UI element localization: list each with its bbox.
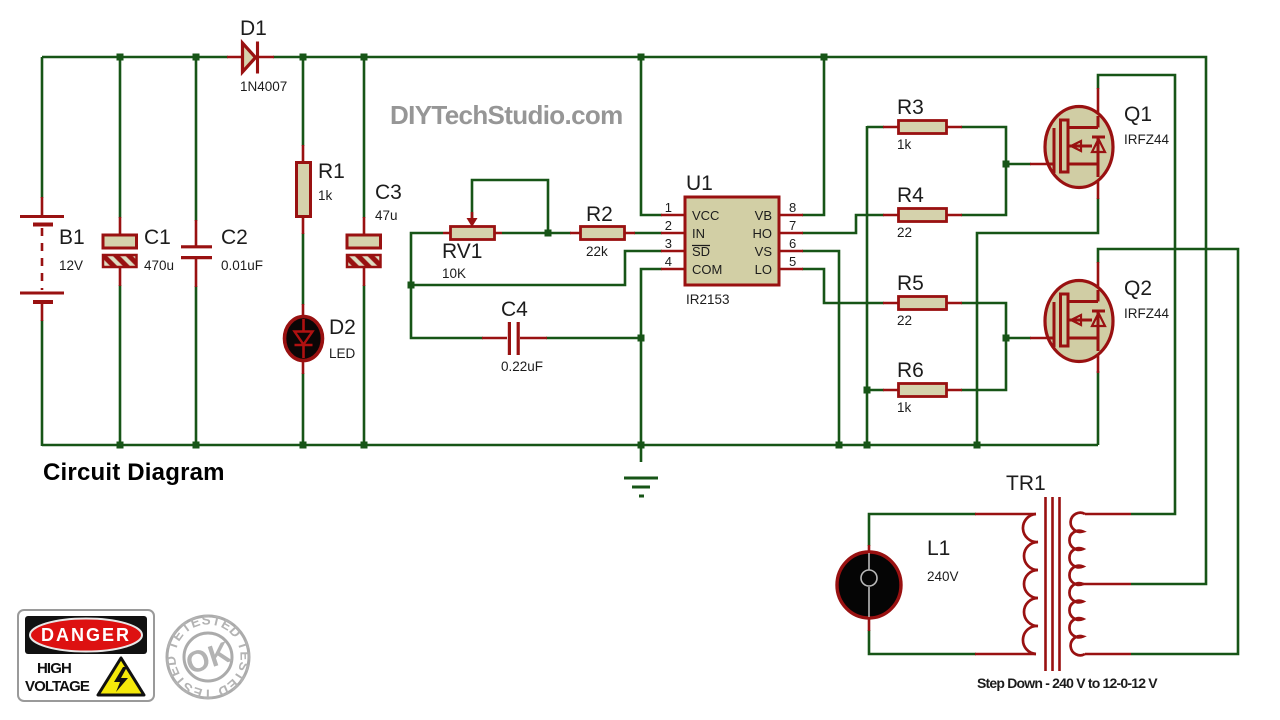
svg-text:47u: 47u [375,208,398,223]
diode D1 [243,42,258,74]
wire: Q2 pin stubs [1030,262,1098,373]
TR1 primary winding [1023,514,1038,654]
wire: lamp loop top [869,514,976,546]
svg-text:VS: VS [755,244,773,259]
potentiometer RV1 [451,212,495,240]
TR1 secondary winding [1069,513,1085,656]
svg-text:R6: R6 [897,359,924,382]
svg-text:IR2153: IR2153 [686,292,730,307]
battery B1 [20,217,64,303]
resistor R1 [297,163,311,217]
svg-text:6: 6 [789,236,796,251]
wire: Q2 source to ground rail [1097,371,1100,445]
wire: top +12V rail right of D1, drop to transformer center tap [273,57,1206,584]
wire: RV1 pin stubs [443,232,502,235]
svg-text:4: 4 [665,254,672,269]
svg-text:22: 22 [897,313,912,328]
svg-text:VOLTAGE: VOLTAGE [25,678,90,695]
wire: B1 top lead [41,57,44,198]
svg-text:IRFZ44: IRFZ44 [1124,306,1170,321]
wire: gate pulldown vertical R3/R6 [867,126,884,445]
svg-text:R2: R2 [586,203,613,226]
capacitor C1 [103,235,137,267]
junction RV1 left / SD node [408,282,415,289]
LED D2 [285,317,323,361]
junction bottom rail at Q1 source [974,442,981,449]
wire: C2 branch [195,57,198,445]
svg-text:R3: R3 [897,96,924,119]
svg-text:22: 22 [897,225,912,240]
svg-text:8: 8 [789,200,796,215]
svg-text:0.22uF: 0.22uF [501,359,543,374]
wire: VB to top rail [802,57,824,215]
wire: TR1 primary pin stubs [975,514,1036,654]
svg-text:HIGH: HIGH [37,660,71,677]
wire: Q1 drain to transformer secondary top [1098,75,1175,514]
svg-text:D1: D1 [240,17,267,40]
svg-text:C2: C2 [221,226,248,249]
junction top rail at VCC drop [638,54,645,61]
svg-text:COM: COM [692,262,722,277]
svg-text:C1: C1 [144,226,171,249]
resistor R6 [899,384,947,397]
wire: B1 bottom lead [41,320,44,446]
wire: bottom ground rail [42,444,1098,447]
wire: C2 pin stubs [195,220,198,287]
junction top rail at C3 [361,54,368,61]
svg-text:SD: SD [692,244,710,259]
wire: RV1 left / SD node / C4 left [411,233,662,338]
wire: R3 right to Q1 gate node [961,127,1006,164]
svg-text:1: 1 [665,200,672,215]
junction top rail at C1 [117,54,124,61]
svg-text:7: 7 [789,218,796,233]
svg-text:C4: C4 [501,298,528,321]
wire: C3 branch [363,57,366,445]
junction Q2 gate node [1003,335,1010,342]
resistor R2 [581,227,625,240]
lamp L1 [837,552,901,618]
svg-text:10K: 10K [442,266,466,281]
transformer TR1 [1023,497,1085,671]
junction bottom rail at C2 [193,442,200,449]
wire: B1 pin stubs [41,197,44,321]
svg-text:LED: LED [329,346,356,361]
resistor R4 [899,209,947,222]
op-amp U1 IC body IR2153 [685,197,779,285]
wire: C4 right to COM vertical [546,337,642,340]
junction top rail at VB riser [821,54,828,61]
junction bottom rail at D2 [300,442,307,449]
junction R6 left on pulldown vertical [864,387,871,394]
wire: R4 pin stubs [883,214,962,217]
wire: D2 pin stubs [302,304,305,374]
svg-text:1k: 1k [897,137,912,152]
junction Q1 gate node [1003,161,1010,168]
svg-text:470u: 470u [144,258,174,273]
wire: D1 pin stubs [227,56,274,59]
svg-text:VB: VB [755,208,772,223]
wire: U1 right pin stubs 8-5 [779,215,803,269]
svg-text:0.01uF: 0.01uF [221,258,263,273]
svg-text:1k: 1k [897,400,912,415]
wire: COM to ground [641,269,662,462]
svg-text:IRFZ44: IRFZ44 [1124,132,1170,147]
transistor Q2 IRFZ44 [1045,281,1113,362]
wire: Q1 pin stubs [1030,88,1098,199]
svg-text:1k: 1k [318,188,333,203]
wire: R6 pin stubs [883,389,962,392]
wire: U1 left pin stubs 1-4 [661,215,685,269]
wire: C3 pin stubs [363,217,366,286]
U1 pin names and numbers [665,200,796,277]
svg-text:R1: R1 [318,160,345,183]
wire: C1 branch [119,57,122,445]
svg-text:R4: R4 [897,184,924,207]
wire: R4 right to Q1 gate node [961,164,1031,215]
wire: C4 pin stubs [482,337,547,340]
svg-text:1N4007: 1N4007 [240,79,287,94]
svg-text:TESTED TESTED TESTED TES: TESTED TESTED TESTED TES [0,0,253,702]
wire: HO to R4 [802,215,884,233]
junction bottom rail at VS [836,442,843,449]
resistor R5 [899,297,947,310]
TR1 core [1046,497,1060,671]
capacitor C3 [347,235,381,267]
svg-text:LO: LO [755,262,772,277]
wire: R2 to U1 pin2 [634,232,662,235]
capacitor C2 [181,247,212,258]
svg-text:Q1: Q1 [1124,103,1152,126]
wire: lamp loop bottom [869,630,976,654]
svg-text:Step Down - 240 V to 12-0-12 V: Step Down - 240 V to 12-0-12 V [977,675,1158,691]
danger high voltage sign [18,610,154,701]
wire: R1 / D2 branch [302,57,305,445]
capacitor C4 [509,322,518,355]
svg-text:HO: HO [753,226,773,241]
wire: LO to R5 [802,269,884,303]
junction bottom rail at C3 [361,442,368,449]
svg-text:2: 2 [665,218,672,233]
wire: C1 pin stubs [119,217,122,286]
svg-text:DANGER: DANGER [41,625,131,645]
wire: Q1 source to ground rail [977,198,1098,445]
svg-text:22k: 22k [586,244,608,259]
wire: R1 pin stubs [302,145,305,234]
wire: VS to ground rail [802,251,839,445]
svg-text:3: 3 [665,236,672,251]
wire: R5 right to Q2 gate node [961,303,1006,338]
svg-text:L1: L1 [927,537,950,560]
wire: TR1 secondary pin stubs [1082,514,1131,654]
junction top rail at R1 [300,54,307,61]
wire: R5 pin stubs [883,302,962,305]
junction top rail at C2 [193,54,200,61]
svg-text:5: 5 [789,254,796,269]
svg-text:U1: U1 [686,172,713,195]
svg-text:12V: 12V [59,258,83,273]
junction bottom rail at C1 [117,442,124,449]
svg-text:D2: D2 [329,316,356,339]
svg-text:C3: C3 [375,181,402,204]
svg-text:TR1: TR1 [1006,472,1046,495]
svg-text:Q2: Q2 [1124,277,1152,300]
wire: R2 pin stubs [570,232,635,235]
svg-text:RV1: RV1 [442,240,482,263]
junction RV1 wiper to right terminal [545,230,552,237]
wire: R3 pin stubs [883,126,962,129]
ground [624,478,658,496]
transistor Q1 IRFZ44 [1045,107,1113,188]
svg-text:IN: IN [692,226,705,241]
junction bottom rail at pulldown vertical [864,442,871,449]
wire: RV1 wiper loop [472,180,571,233]
wire: L1 pin stubs [868,545,871,631]
wire: top +12V rail left of D1 [42,56,228,59]
svg-text:VCC: VCC [692,208,719,223]
svg-text:Circuit Diagram: Circuit Diagram [43,459,225,486]
svg-text:R5: R5 [897,272,924,295]
svg-text:DIYTechStudio.com: DIYTechStudio.com [390,100,623,130]
svg-text:B1: B1 [59,226,85,249]
svg-text:240V: 240V [927,569,959,584]
wire: Q2 drain to transformer secondary bottom [1098,249,1238,654]
wire: R6 right to Q2 gate node [961,338,1031,390]
junction C4 right / COM [638,335,645,342]
tested OK stamp [0,0,253,702]
wire: VCC feed to U1 pin1 [641,57,662,215]
resistor R3 [899,121,947,134]
junction bottom rail at ground symbol [638,442,645,449]
